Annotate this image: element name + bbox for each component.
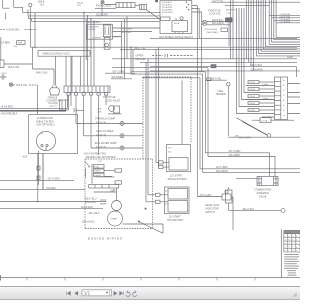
svg-text:ENG OIL PRES: ENG OIL PRES bbox=[97, 130, 114, 133]
engine fuel shutdown labels bbox=[84, 153, 116, 164]
svg-text:ENGINE FUEL SHUTDOWN: ENGINE FUEL SHUTDOWN bbox=[86, 157, 116, 159]
connector block dark bbox=[226, 10, 237, 46]
svg-text:020-A BRN: 020-A BRN bbox=[212, 22, 224, 25]
svg-text:(W/TC): (W/TC) bbox=[50, 106, 57, 108]
vertical trunk x233 bbox=[232, 0, 234, 59]
fuel pump relay K1 bbox=[85, 161, 122, 192]
wire 227-A ORG bbox=[0, 178, 74, 181]
svg-text:020-B BLU: 020-B BLU bbox=[212, 20, 224, 22]
wire 503-B BRN bbox=[111, 77, 132, 79]
tag C17-A with wire bbox=[252, 118, 294, 123]
bulkhead pin plugs bbox=[67, 93, 108, 96]
svg-text:G: G bbox=[283, 110, 285, 112]
title block notes bbox=[284, 254, 299, 276]
wire label 013-B ORL bbox=[0, 29, 37, 32]
svg-text:05A: 05A bbox=[98, 107, 102, 110]
wire 03A bbox=[228, 135, 300, 138]
wire bus top-left pair1 bbox=[23, 10, 88, 16]
svg-text:431-A BLK: 431-A BLK bbox=[89, 212, 100, 215]
wire 093-A YEL bbox=[207, 78, 227, 81]
svg-text:SWITCH: SWITCH bbox=[206, 211, 216, 214]
title block border bbox=[280, 230, 282, 278]
wire bundle to bulkhead bbox=[84, 13, 94, 86]
connector tag mid bbox=[206, 78, 211, 81]
svg-text:(224-A GRN): (224-A GRN) bbox=[205, 28, 218, 31]
svg-text:473-A GRN: 473-A GRN bbox=[200, 194, 212, 197]
svg-text:227-C BRN: 227-C BRN bbox=[216, 167, 228, 169]
alternator G1 bbox=[36, 131, 55, 150]
svg-text:453-B YEL: 453-B YEL bbox=[16, 84, 28, 87]
wire 431-A BLK bbox=[89, 212, 100, 215]
svg-text:224: 224 bbox=[165, 204, 169, 206]
svg-text:C34-A: C34-A bbox=[262, 83, 268, 86]
label 114-BRN with A-B tag bbox=[0, 41, 25, 48]
engine wiring boundary box bbox=[85, 77, 191, 229]
svg-text:PWR ACCESS: PWR ACCESS bbox=[96, 5, 112, 8]
svg-text:231-C BLK: 231-C BLK bbox=[243, 208, 255, 211]
steering valve label bbox=[255, 188, 272, 198]
svg-text:C17-A BRN: C17-A BRN bbox=[280, 20, 291, 23]
wire 014 RED bbox=[0, 187, 85, 190]
engine water temp sender bbox=[91, 142, 143, 150]
long wire 62.3 bbox=[140, 61, 297, 63]
labeled wires right top bbox=[269, 0, 300, 44]
wire bus to range select bbox=[84, 13, 160, 22]
svg-text:FRANKLIN COMP: FRANKLIN COMP bbox=[96, 118, 116, 121]
svg-text:E: E bbox=[283, 100, 285, 102]
battery feed wires bbox=[146, 47, 159, 202]
svg-text:020-A YEL: 020-A YEL bbox=[213, 0, 225, 3]
svg-text:PUMP: PUMP bbox=[95, 171, 101, 173]
bulkhead connector bbox=[64, 86, 110, 93]
svg-text:F: F bbox=[283, 105, 285, 107]
svg-text:014 RED: 014 RED bbox=[46, 187, 56, 190]
battery box 1 label bbox=[168, 174, 188, 180]
svg-text:C31-B: C31-B bbox=[249, 96, 255, 98]
svg-text:LOCK SOL: LOCK SOL bbox=[209, 13, 222, 16]
dark plug right mid bbox=[211, 65, 216, 68]
fuse block bbox=[3, 0, 23, 20]
svg-text:C34: C34 bbox=[13, 46, 18, 48]
wire 458-C BLK bbox=[33, 47, 55, 85]
svg-text:A-B: A-B bbox=[18, 42, 22, 45]
svg-text:VALVE: VALVE bbox=[259, 195, 267, 198]
range select box bbox=[160, 1, 202, 34]
label 022-B ORN bbox=[96, 14, 108, 16]
drawing bottom border bbox=[0, 275, 300, 281]
svg-text:093-A YEL: 093-A YEL bbox=[211, 78, 223, 81]
svg-text:CONVERTER: CONVERTER bbox=[47, 100, 62, 102]
capacitor C34 bbox=[0, 73, 7, 80]
svg-text:C30-B: C30-B bbox=[249, 89, 255, 91]
vertical trunk x230 bbox=[230, 0, 232, 59]
svg-text:—01A: —01A bbox=[21, 155, 28, 158]
range select label strip bbox=[159, 36, 194, 39]
wire top right short bbox=[225, 4, 269, 6]
svg-text:(NEUTRAL): (NEUTRAL) bbox=[207, 31, 219, 34]
svg-text:TORQUE: TORQUE bbox=[48, 98, 58, 100]
power access terminal bbox=[96, 1, 112, 8]
steering column switch bbox=[87, 24, 120, 49]
wire left drop bbox=[85, 19, 87, 60]
ECU output stubs bbox=[288, 84, 301, 114]
svg-text:SENDER: SENDER bbox=[216, 94, 226, 96]
svg-text:P/2: P/2 bbox=[99, 161, 103, 163]
svg-text:024: 024 bbox=[168, 152, 172, 154]
svg-text:BLU/WHT: BLU/WHT bbox=[226, 10, 237, 12]
svg-text:START: START bbox=[111, 218, 119, 221]
svg-text:040-A: 040-A bbox=[174, 22, 180, 25]
svg-text:223: 223 bbox=[165, 191, 169, 193]
svg-text:TWO BATTERY: TWO BATTERY bbox=[167, 219, 184, 222]
wires below bulkhead bbox=[69, 95, 107, 155]
alternator output wires bbox=[37, 151, 43, 190]
svg-text:022-B ORN: 022-B ORN bbox=[96, 14, 108, 16]
range box drop wires bbox=[199, 9, 202, 72]
svg-text:483-A YEL: 483-A YEL bbox=[8, 66, 20, 69]
long wire below range select bbox=[150, 37, 297, 39]
label 222-A ORN bbox=[88, 21, 100, 24]
throttle lock solenoid bbox=[202, 9, 222, 25]
svg-text:FUEL: FUEL bbox=[95, 166, 101, 168]
unregulated volts box bbox=[38, 51, 90, 57]
svg-text:209-A BLU: 209-A BLU bbox=[85, 201, 96, 204]
svg-text:014-A RED: 014-A RED bbox=[81, 206, 93, 209]
svg-text:W/BUILT-IN REG: W/BUILT-IN REG bbox=[36, 121, 54, 123]
left border wire bbox=[0, 37, 2, 60]
svg-text:227-A ORG: 227-A ORG bbox=[48, 178, 60, 181]
svg-text:14 GA RED: 14 GA RED bbox=[1, 105, 14, 108]
wire 020-B BLU bbox=[207, 20, 230, 22]
svg-text:D: D bbox=[283, 95, 285, 97]
label 201-C BRN bbox=[122, 28, 133, 34]
wire 098-C YEL pair bbox=[30, 9, 297, 50]
wire 223-A BRN to valve bbox=[208, 68, 275, 177]
diagonal wire 224-A GRN bbox=[237, 118, 271, 140]
wire 528-C BLK bbox=[150, 64, 297, 77]
title block table bbox=[284, 230, 300, 252]
valve feed wire bbox=[236, 178, 257, 180]
wires from steering column bbox=[113, 16, 161, 79]
svg-text:1: 1 bbox=[296, 251, 298, 253]
ECU harness verticals bbox=[237, 8, 275, 114]
label neutral bbox=[205, 28, 228, 34]
svg-text:RELAY: RELAY bbox=[95, 174, 102, 177]
svg-text:200-A WHT/BLK/TAN: 200-A WHT/BLK/TAN bbox=[84, 153, 106, 156]
svg-text:034-C: 034-C bbox=[1, 73, 7, 75]
wire 020-A BRN bbox=[207, 22, 230, 25]
ink blob corner bbox=[155, 0, 158, 2]
starter solenoid M1 bbox=[112, 188, 122, 211]
engine oil pressure sender bbox=[84, 130, 144, 138]
main battery bus bbox=[0, 95, 84, 115]
ECU connector J1 bbox=[275, 77, 288, 120]
engine wiring caption bbox=[88, 236, 123, 240]
throttle lock valve bbox=[98, 96, 122, 114]
wire bus top-left pair2 bbox=[29, 16, 95, 22]
component left small bbox=[0, 60, 32, 69]
long wire 58.7 bbox=[112, 58, 297, 60]
wire to battery top bbox=[181, 81, 183, 145]
battery box 1 bbox=[159, 145, 191, 172]
svg-text:(24V OPTIONAL): (24V OPTIONAL) bbox=[37, 124, 55, 127]
wire 523-B BRN bbox=[150, 68, 300, 71]
svg-text:PPL: PPL bbox=[77, 5, 82, 7]
svg-text:C35-A: C35-A bbox=[262, 97, 268, 100]
svg-text:PLUG(S): PLUG(S) bbox=[49, 103, 59, 105]
component box left mid bbox=[60, 100, 69, 110]
wire upper mid bbox=[95, 8, 116, 10]
svg-text:023: 023 bbox=[168, 148, 172, 150]
combination steering valve bbox=[257, 177, 278, 186]
svg-text:B: B bbox=[283, 85, 285, 87]
svg-text:224-A GRN: 224-A GRN bbox=[239, 137, 251, 140]
svg-text:H: H bbox=[283, 115, 285, 117]
starter output wire bbox=[123, 208, 164, 224]
svg-text:C33-B: C33-B bbox=[249, 110, 255, 112]
svg-text:A: A bbox=[283, 79, 285, 82]
svg-text:503-B BRN: 503-B BRN bbox=[112, 77, 124, 79]
alternator box bbox=[29, 115, 78, 154]
long wire 600-C bbox=[0, 201, 106, 203]
fuel sender bbox=[216, 83, 230, 137]
svg-text:UPPER: UPPER bbox=[136, 55, 144, 57]
svg-text:227-C BRN: 227-C BRN bbox=[229, 151, 241, 153]
wire 209-A BLU bbox=[85, 201, 106, 204]
terminal post circle bbox=[29, 3, 32, 8]
wires from unregulated box bbox=[56, 56, 81, 106]
svg-text:C32-B: C32-B bbox=[249, 103, 255, 105]
svg-text:223-A BRN: 223-A BRN bbox=[229, 154, 241, 157]
svg-text:UNREGULATED A VOLT: UNREGULATED A VOLT bbox=[42, 53, 70, 56]
svg-text:C29-A: C29-A bbox=[249, 81, 255, 84]
wire pwr access bbox=[102, 4, 140, 16]
battery box 2 label bbox=[167, 216, 184, 222]
svg-text:098-C YEL: 098-C YEL bbox=[134, 47, 146, 50]
svg-text:458-C BLK: 458-C BLK bbox=[36, 72, 48, 75]
svg-text:1: 1 bbox=[288, 251, 290, 253]
svg-text:048-B YEL: 048-B YEL bbox=[96, 122, 107, 124]
com red dashed wire bbox=[135, 54, 193, 61]
label 306-A PPL bbox=[77, 1, 83, 7]
svg-text:14GA RED/BLK: 14GA RED/BLK bbox=[1, 112, 18, 115]
svg-text:ENGINE WIRING: ENGINE WIRING bbox=[88, 236, 123, 240]
svg-text:C17-A: C17-A bbox=[261, 120, 268, 123]
svg-text:SINGLE BATTERY: SINGLE BATTERY bbox=[168, 178, 188, 181]
svg-text:12V START: 12V START bbox=[170, 174, 183, 177]
nested bend wire A bbox=[112, 47, 208, 78]
nested bend wire B bbox=[200, 74, 300, 173]
wire 020-A YEL top bbox=[211, 0, 300, 3]
franklin comp sender bbox=[76, 118, 143, 126]
rear lock indicator switch bbox=[222, 190, 233, 230]
ground symbol with wire 453-B YEL bbox=[9, 83, 37, 115]
starter motor M2 bbox=[108, 211, 123, 226]
diode block D1A bbox=[89, 185, 119, 193]
svg-text:213-A YEL: 213-A YEL bbox=[96, 146, 107, 149]
svg-text:223-A BRN: 223-A BRN bbox=[216, 170, 228, 173]
rear lock switch label bbox=[206, 204, 220, 214]
battery box 2 bbox=[156, 187, 190, 214]
corner fan wires bbox=[246, 0, 300, 71]
svg-text:5: 5 bbox=[284, 251, 286, 253]
svg-text:600-C BLU: 600-C BLU bbox=[85, 198, 97, 200]
svg-text:025-B GRN: 025-B GRN bbox=[162, 12, 173, 14]
flasher relay box bbox=[116, 2, 135, 7]
torque converter plug bbox=[47, 86, 62, 108]
svg-text:THROTTLE: THROTTLE bbox=[103, 96, 116, 99]
long wire 014-A bbox=[0, 208, 103, 210]
wire alternator to bus bbox=[37, 154, 43, 203]
svg-text:CAPA: CAPA bbox=[287, 56, 294, 59]
svg-text:528-C BLK: 528-C BLK bbox=[251, 64, 263, 67]
ECU row plain wires bbox=[246, 83, 275, 117]
svg-text:12V START: 12V START bbox=[169, 216, 182, 219]
wire 031-A BLK bbox=[82, 221, 95, 224]
svg-text:1/1: 1/1 bbox=[84, 291, 91, 296]
svg-text:05B: 05B bbox=[98, 111, 102, 113]
svg-text:ALTERNATOR: ALTERNATOR bbox=[37, 117, 53, 120]
trunk wire 473-A GRN bbox=[197, 6, 222, 197]
diagonal battery cable bbox=[140, 222, 164, 233]
solenoid coil component bbox=[226, 187, 233, 211]
wire 014-A RED bbox=[81, 206, 93, 209]
wire 231-C BLK bbox=[229, 208, 285, 213]
svg-text:C: C bbox=[283, 90, 285, 92]
svg-text:WHEEL: WHEEL bbox=[88, 29, 96, 31]
svg-text:CTRL: CTRL bbox=[113, 37, 119, 39]
wire 600-C BLU bbox=[85, 198, 106, 200]
wire 227-C BRN to valve bbox=[205, 72, 269, 177]
svg-text:013-B ORL: 013-B ORL bbox=[7, 29, 20, 32]
junction dots bbox=[83, 12, 95, 22]
wire 507-C BRN bbox=[105, 72, 135, 74]
svg-text:D1A: D1A bbox=[110, 190, 115, 193]
svg-text:507-C BRN: 507-C BRN bbox=[113, 72, 125, 74]
svg-text:523-B BRN: 523-B BRN bbox=[251, 68, 263, 71]
svg-text:FUEL: FUEL bbox=[218, 91, 225, 93]
ECU input rows with tag boxes bbox=[248, 81, 275, 113]
svg-text:YEL: YEL bbox=[40, 3, 45, 6]
svg-text:ENG WATER TEMP: ENG WATER TEMP bbox=[95, 142, 117, 145]
svg-text:LOCK VALVE: LOCK VALVE bbox=[106, 100, 121, 103]
svg-text:(031-A BLK): (031-A BLK) bbox=[82, 221, 95, 224]
svg-text:4: 4 bbox=[292, 251, 294, 253]
svg-text:114-BRN: 114-BRN bbox=[0, 41, 10, 44]
small relay box bbox=[140, 4, 161, 19]
svg-text:209-A YEL: 209-A YEL bbox=[96, 133, 107, 136]
